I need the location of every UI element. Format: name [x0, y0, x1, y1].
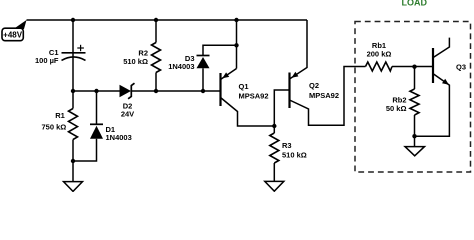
svg-text:24V: 24V	[121, 110, 134, 119]
svg-text:100 µF: 100 µF	[35, 56, 59, 65]
svg-text:MPSA92: MPSA92	[239, 92, 269, 101]
svg-text:510 kΩ: 510 kΩ	[282, 151, 307, 160]
svg-text:1N4003: 1N4003	[168, 62, 194, 71]
svg-text:Q3: Q3	[456, 63, 466, 72]
svg-text:200 kΩ: 200 kΩ	[367, 50, 392, 59]
svg-text:510 kΩ: 510 kΩ	[123, 57, 148, 66]
svg-text:+48V: +48V	[3, 31, 23, 40]
svg-text:50 kΩ: 50 kΩ	[386, 104, 407, 113]
svg-text:1N4003: 1N4003	[106, 133, 132, 142]
svg-text:Q2: Q2	[309, 81, 319, 90]
svg-text:LOAD: LOAD	[402, 0, 428, 8]
svg-text:Q1: Q1	[239, 82, 249, 91]
svg-text:R3: R3	[282, 141, 292, 150]
svg-text:R1: R1	[55, 111, 65, 120]
svg-text:750 kΩ: 750 kΩ	[42, 123, 67, 132]
svg-text:MPSA92: MPSA92	[309, 91, 339, 100]
